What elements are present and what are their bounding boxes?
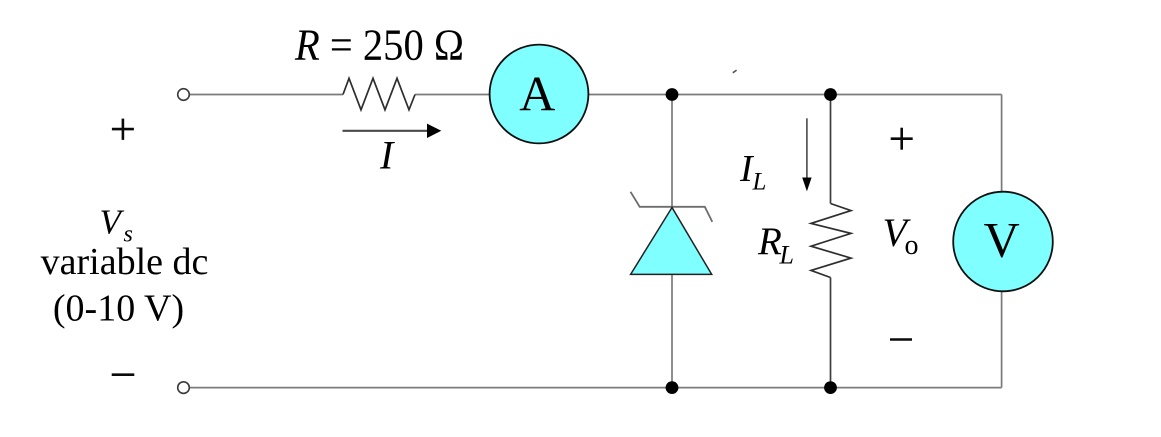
svg-text:L: L: [779, 241, 794, 270]
svg-text:A: A: [519, 66, 555, 122]
svg-text:I: I: [379, 133, 395, 178]
svg-text:R: R: [757, 220, 782, 263]
svg-text:(0-10 V): (0-10 V): [53, 288, 184, 330]
svg-text:V: V: [100, 202, 125, 241]
svg-text:o: o: [905, 230, 919, 261]
svg-text:V: V: [984, 212, 1020, 268]
svg-text:L: L: [752, 168, 767, 195]
svg-text:variable dc: variable dc: [41, 241, 209, 283]
svg-text:R = 250 Ω: R = 250 Ω: [294, 21, 464, 70]
